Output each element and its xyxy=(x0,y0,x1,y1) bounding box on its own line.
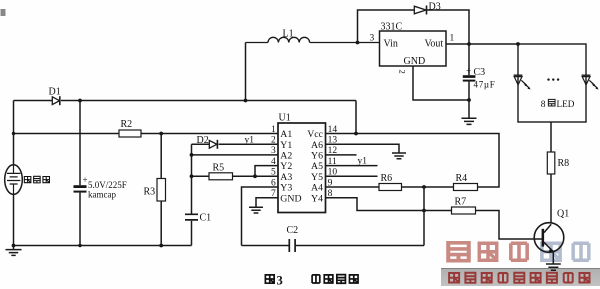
ground left xyxy=(6,246,22,256)
wire C3 branch xyxy=(468,44,470,118)
node A2 xyxy=(190,153,194,157)
diode D1 xyxy=(52,97,59,105)
wire pin11 stub y1 xyxy=(326,165,378,167)
svg-text:3: 3 xyxy=(271,146,276,156)
node Vin D3 xyxy=(356,41,360,45)
node L1 leg xyxy=(244,99,248,103)
capacitor C3 xyxy=(463,75,476,78)
svg-text:Y4: Y4 xyxy=(311,193,323,204)
svg-text:A1: A1 xyxy=(280,129,292,140)
wire C1 vertical xyxy=(191,144,193,245)
wire C2 row xyxy=(242,245,425,247)
svg-text:5.0V/225F: 5.0V/225F xyxy=(88,180,127,190)
svg-text:2: 2 xyxy=(398,70,408,74)
svg-text:D3: D3 xyxy=(429,2,441,13)
resistor R6 xyxy=(379,184,402,191)
wire vcc drop xyxy=(355,101,357,134)
svg-text:R3: R3 xyxy=(144,187,156,198)
node rail-ground xyxy=(12,244,16,248)
resistor R2 xyxy=(119,130,141,137)
wire pin8 Y4 to R7 xyxy=(326,198,543,239)
svg-text:U1: U1 xyxy=(279,113,291,124)
svg-text:Vin: Vin xyxy=(384,39,398,50)
svg-text:Q1: Q1 xyxy=(557,209,569,220)
ground pin7 xyxy=(249,207,263,213)
wire pin9 A4 row xyxy=(326,186,454,188)
scan artifact top-left xyxy=(1,9,6,16)
node R6 R4 junction xyxy=(422,185,426,189)
wire 331C GND pin xyxy=(413,66,469,100)
inductor L1 xyxy=(246,37,380,42)
svg-text:A2: A2 xyxy=(280,151,292,162)
watermark small text 射频和天线设计专家 xyxy=(449,273,589,283)
svg-text:7: 7 xyxy=(271,189,276,199)
svg-text:R2: R2 xyxy=(121,119,133,130)
svg-text:y1: y1 xyxy=(358,157,368,167)
svg-text:47µF: 47µF xyxy=(474,80,496,90)
resistor R4 xyxy=(454,184,478,191)
svg-text:331C: 331C xyxy=(381,22,403,33)
svg-text:A5: A5 xyxy=(311,161,323,172)
resistor R3 xyxy=(157,179,166,202)
svg-text:8: 8 xyxy=(328,189,333,199)
wire bottom rail xyxy=(14,245,192,247)
ground pin13 xyxy=(392,153,406,159)
node supercap bottom xyxy=(78,244,81,247)
svg-text:C3: C3 xyxy=(474,67,486,78)
svg-text:12: 12 xyxy=(328,146,338,156)
wire D2 row y1 xyxy=(192,143,279,145)
wire junction drop to C2 xyxy=(423,187,425,246)
svg-text:R6: R6 xyxy=(381,173,393,184)
chip pin labels right column xyxy=(307,129,323,204)
svg-text:6: 6 xyxy=(271,178,276,188)
svg-text:kamcap: kamcap xyxy=(88,190,116,200)
svg-text:1: 1 xyxy=(271,125,276,135)
ground Q1 xyxy=(546,264,561,270)
svg-text:14: 14 xyxy=(328,125,338,135)
svg-text:+: + xyxy=(466,66,471,76)
LED DL8 xyxy=(582,74,591,76)
capacitor C2 xyxy=(289,239,295,252)
svg-text:A3: A3 xyxy=(280,172,292,183)
svg-text:13: 13 xyxy=(328,136,338,146)
wire top row xyxy=(14,100,357,102)
wire collector xyxy=(550,174,552,223)
svg-text:L1: L1 xyxy=(283,29,294,40)
resistor R8 xyxy=(547,152,555,174)
wire pin12 stub xyxy=(326,154,357,156)
transistor Q1 xyxy=(534,223,564,253)
wire pin6 Y3 xyxy=(242,187,279,246)
wire pin14 Vcc row xyxy=(326,134,500,188)
wire R2 row xyxy=(14,133,279,135)
node led box corner xyxy=(516,42,520,46)
svg-text:Vout: Vout xyxy=(425,39,444,50)
svg-text:1: 1 xyxy=(450,34,455,44)
node R3 bottom xyxy=(159,244,163,248)
node vcc drop xyxy=(354,132,358,136)
node supercap top xyxy=(78,99,82,103)
wire emitter xyxy=(552,252,554,264)
svg-text:2: 2 xyxy=(271,136,276,146)
capacitor C4 kamcap xyxy=(74,185,87,188)
svg-text:3: 3 xyxy=(277,273,283,287)
svg-text:5: 5 xyxy=(271,168,276,178)
LED box 8只LED xyxy=(518,44,586,122)
wire pin10 stub xyxy=(326,175,378,177)
label battery 硅电池 (fake glyphs) xyxy=(24,176,49,183)
svg-text:4: 4 xyxy=(271,157,276,167)
svg-text:R5: R5 xyxy=(213,163,225,174)
svg-text:9: 9 xyxy=(328,178,333,188)
chip pin labels left column xyxy=(280,129,301,204)
svg-text:10: 10 xyxy=(328,168,338,178)
label 只 of 8只LED xyxy=(548,99,555,106)
svg-text:R8: R8 xyxy=(558,158,570,169)
node R5 left xyxy=(190,174,194,178)
svg-text:Y5: Y5 xyxy=(311,172,323,183)
svg-text:Y2: Y2 xyxy=(280,161,292,172)
wire D3 bypass xyxy=(358,10,470,44)
svg-text:GND: GND xyxy=(404,56,426,67)
IC U1 box xyxy=(278,123,326,213)
wire supercap branch xyxy=(79,101,81,246)
wire left rail xyxy=(13,101,15,246)
svg-text:R4: R4 xyxy=(456,173,468,184)
ground C3 xyxy=(462,118,477,124)
wire R3 branch xyxy=(160,134,162,246)
svg-text:Y1: Y1 xyxy=(280,140,292,151)
capacitor C1 xyxy=(185,214,198,220)
node Vout D3 C3 xyxy=(467,42,471,46)
wire Vout row xyxy=(446,43,518,45)
svg-text:A4: A4 xyxy=(311,183,323,194)
node pin5 join xyxy=(253,174,257,178)
wire R5 row xyxy=(192,175,279,177)
node R3 top xyxy=(159,132,163,136)
pin numbers left xyxy=(271,125,276,199)
svg-text:C1: C1 xyxy=(200,213,212,224)
svg-text:R7: R7 xyxy=(455,197,467,208)
wire pin13 xyxy=(326,144,400,152)
svg-text:Vcc: Vcc xyxy=(307,129,323,140)
resistor R7 xyxy=(452,207,476,214)
wire pin7 gnd xyxy=(256,198,278,207)
svg-text:LED: LED xyxy=(557,99,575,109)
svg-text:y1: y1 xyxy=(245,136,255,146)
watermark big text 易迪拓培训 xyxy=(448,243,589,261)
wire A2 row xyxy=(192,154,279,156)
svg-text:+: + xyxy=(83,175,88,185)
LED dots xyxy=(547,78,549,80)
LED DL1 xyxy=(514,74,523,76)
svg-text:Y3: Y3 xyxy=(280,183,292,194)
svg-text:D2: D2 xyxy=(197,135,209,146)
svg-text:3: 3 xyxy=(370,34,375,44)
svg-text:Y6: Y6 xyxy=(311,151,323,162)
wire L1 input leg xyxy=(245,43,247,101)
node left rail R2 xyxy=(12,132,15,135)
regulator U2 331C box xyxy=(380,31,447,66)
svg-text:GND: GND xyxy=(280,193,301,204)
svg-text:C2: C2 xyxy=(287,225,299,236)
diode D3 xyxy=(414,6,426,14)
wire led to R8 xyxy=(550,122,552,152)
resistor R5 xyxy=(209,173,233,180)
svg-text:A6: A6 xyxy=(311,140,323,151)
wire pin4 bracket xyxy=(255,166,278,177)
svg-text:8: 8 xyxy=(541,100,546,110)
watermark gray band xyxy=(441,268,600,286)
svg-text:D1: D1 xyxy=(49,87,61,98)
diode D2 xyxy=(209,140,217,148)
node R7 row cross xyxy=(422,209,426,213)
node gnd C3 xyxy=(467,98,471,102)
pin numbers right xyxy=(328,125,338,199)
svg-text:11: 11 xyxy=(328,157,337,167)
battery B1 硅电池 xyxy=(5,165,23,195)
